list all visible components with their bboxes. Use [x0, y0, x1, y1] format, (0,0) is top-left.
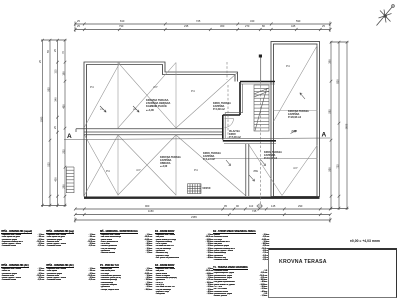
terrace outer wall left [84, 62, 238, 197]
bottom dimension chain 3 overall [74, 218, 332, 223]
legend block T1 - TERASA [213, 267, 267, 298]
bottom dim numbers row1 [145, 205, 149, 208]
legend block K2 - STROP I [213, 231, 269, 262]
legend block VP&Scaron;4 [46, 265, 95, 282]
right block label [288, 110, 309, 119]
top dim numbers row2 [77, 25, 80, 28]
left dim numbers (rotated) [40, 117, 43, 123]
slope pct labels [100, 109, 103, 111]
legend block M&Scaron; - [100, 231, 152, 255]
legend block K3 - RAVNI K [155, 265, 213, 296]
left dimension chains [41, 39, 67, 207]
roof grate / skylight [188, 184, 202, 194]
exterior ladder left [66, 167, 74, 193]
vertical service axis dashed [227, 62, 261, 204]
terrace label center [146, 99, 170, 112]
right block outer wall [271, 42, 320, 197]
roof slope diagonals upper terrace [85, 63, 238, 129]
legend block VP&Scaron;2 [46, 231, 95, 248]
north arrow [377, 5, 395, 26]
stairwell [254, 85, 269, 131]
terrace label small right [213, 102, 231, 111]
lower terrace label 3 [160, 156, 181, 168]
top dimension chain 2 [74, 27, 332, 32]
terrace internal band wall [76, 129, 223, 135]
legend block VP&Scaron;3 [1, 265, 44, 282]
axis riser solid segment [260, 57, 262, 81]
top dim numbers row1 [77, 20, 80, 23]
stair room label [229, 130, 241, 139]
legend block P1 - POD NA [100, 265, 152, 291]
top dimension chain 1 [74, 22, 332, 27]
bottom dim numbers row2 [148, 210, 154, 213]
plan slope labels [90, 85, 94, 89]
door swing arc stair room [225, 119, 234, 128]
bottom dim numbers row3 [191, 216, 197, 219]
lower terrace label 1 [203, 152, 221, 161]
right block diagonal [274, 45, 318, 122]
svg-text:A: A [322, 132, 327, 139]
right dim numbers (rotated) [329, 59, 332, 63]
title box [268, 248, 397, 298]
section line A-A [64, 138, 330, 140]
title text [279, 259, 327, 265]
drain circle below plan [257, 204, 264, 208]
roof slope diagonals lower terrace [85, 135, 318, 196]
svg-text:A: A [67, 133, 72, 140]
level note [350, 239, 380, 243]
legend block K1 - RAVNI K [155, 231, 213, 259]
bottom dimension chain 2 [74, 213, 332, 216]
stair exit room walls [223, 82, 276, 141]
axis top square marker [259, 55, 262, 58]
terrace bottom wall (dark) [84, 197, 320, 199]
slope arrows [100, 93, 305, 181]
bottom dimension chain 1 [74, 208, 332, 211]
lower terrace label 2 [264, 151, 282, 160]
grate label [202, 186, 210, 190]
legend block VP&Scaron;1 [1, 231, 44, 248]
lower terrace divider wall [246, 144, 249, 196]
right dimension chains [330, 41, 349, 210]
